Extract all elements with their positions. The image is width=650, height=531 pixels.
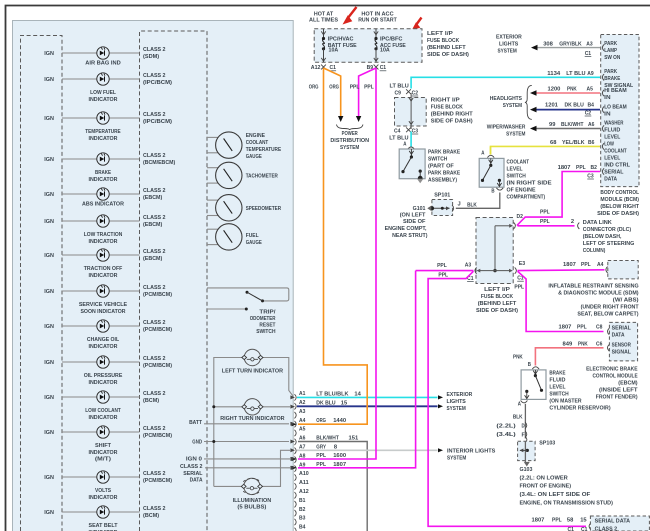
wire DK BLU to exterior lights <box>297 404 443 408</box>
svg-text:C2: C2 <box>412 90 419 96</box>
svg-text:A6: A6 <box>299 436 306 442</box>
svg-text:(2.2L): (2.2L) <box>496 424 515 430</box>
svg-text:99: 99 <box>549 122 556 128</box>
wire IGN feed to AIR-BAG-IND indicator <box>62 52 140 54</box>
svg-text:1201: 1201 <box>545 103 559 109</box>
svg-text:ILLUMINATION: ILLUMINATION <box>233 498 272 504</box>
svg-text:EXTERIOR: EXTERIOR <box>447 392 473 398</box>
indicator lamp SERVICE-VEHICLE <box>44 285 127 315</box>
svg-text:IN: IN <box>604 112 610 118</box>
svg-text:(BCM): (BCM) <box>143 513 159 519</box>
svg-text:PPL: PPL <box>364 85 374 91</box>
power distribution system <box>330 125 369 152</box>
lamp illumination (5 bulbs) <box>233 478 272 510</box>
svg-text:C1: C1 <box>581 527 588 531</box>
svg-text:(PCM/BCM): (PCM/BCM) <box>143 327 172 333</box>
svg-text:IGN: IGN <box>44 116 54 122</box>
svg-text:LT BLU: LT BLU <box>389 135 408 141</box>
svg-text:IGN: IGN <box>44 360 54 366</box>
svg-text:A5: A5 <box>587 86 594 92</box>
svg-text:PNK: PNK <box>567 86 577 92</box>
wire IGN feed to CHANGE-OIL indicator <box>62 325 140 327</box>
wire LT BLU to park brake switch <box>408 132 415 150</box>
svg-text:IGN: IGN <box>44 324 54 330</box>
svg-text:GAUGE: GAUGE <box>246 154 262 160</box>
svg-text:(BELOW DASH,: (BELOW DASH, <box>583 234 622 240</box>
svg-text:A10: A10 <box>299 471 309 477</box>
svg-text:J: J <box>458 202 461 208</box>
svg-text:A: A <box>518 401 522 407</box>
svg-text:A6: A6 <box>588 122 595 128</box>
svg-text:IGN: IGN <box>44 77 54 83</box>
wire label 1807 PPL 58 15 <box>532 518 588 524</box>
wire PPL E3 branch to EBCM serial data <box>518 271 604 331</box>
svg-text:LOW COOLANT: LOW COOLANT <box>85 408 121 414</box>
park brake switch <box>399 149 425 183</box>
svg-text:(BEHIND RIGHT: (BEHIND RIGHT <box>431 112 473 118</box>
svg-text:COOLANT: COOLANT <box>246 140 269 146</box>
svg-text:LIGHTS: LIGHTS <box>447 399 466 405</box>
svg-text:INDICATOR: INDICATOR <box>89 344 119 350</box>
wire BLK/WHT 151 ground from A6 <box>298 442 367 531</box>
svg-text:RUN OR START: RUN OR START <box>358 17 397 23</box>
svg-text:2: 2 <box>571 219 575 225</box>
svg-text:B2: B2 <box>591 165 598 171</box>
svg-text:B4: B4 <box>588 103 595 109</box>
svg-text:C1: C1 <box>568 527 575 531</box>
svg-text:SIDE OF DASH): SIDE OF DASH) <box>597 211 639 217</box>
svg-text:FRONT OF ENGINE): FRONT OF ENGINE) <box>520 484 572 490</box>
svg-text:POWER: POWER <box>342 131 359 137</box>
svg-text:PPL: PPL <box>514 284 524 290</box>
svg-text:ENGINE: ENGINE <box>246 133 265 139</box>
instrument cluster block (light blue) <box>13 21 294 531</box>
node CLASS 2 VOLTS <box>143 471 172 484</box>
node CLASS 2 SHIFT <box>143 426 172 439</box>
svg-text:A: A <box>481 150 485 156</box>
right I/P fuse block <box>395 98 427 127</box>
svg-text:WASHER: WASHER <box>604 121 624 127</box>
wire IGN feed to LOW-TRACTION indicator <box>62 220 140 222</box>
svg-text:CYLINDER RESERVOIR): CYLINDER RESERVOIR) <box>549 405 610 411</box>
engine coolant temperature gauge <box>207 132 281 160</box>
svg-text:LO BEAM: LO BEAM <box>604 105 627 111</box>
svg-text:PPL: PPL <box>540 219 550 225</box>
svg-text:RIGHT I/P: RIGHT I/P <box>431 98 460 104</box>
svg-text:(3.4L: ON LEFT SIDE OF: (3.4L: ON LEFT SIDE OF <box>520 492 591 498</box>
IPC connector pins A1-B4 <box>295 391 310 531</box>
svg-text:CLASS 2: CLASS 2 <box>143 188 166 194</box>
electronic brake control module (EBCM) box <box>608 322 638 361</box>
svg-text:LT BLU: LT BLU <box>566 71 585 77</box>
svg-text:SYSTEM: SYSTEM <box>447 455 466 461</box>
left I/P fuse block (top) <box>314 29 422 63</box>
svg-text:B: B <box>528 362 531 368</box>
svg-text:SERIAL: SERIAL <box>604 170 624 176</box>
svg-text:WIPER/WASHER: WIPER/WASHER <box>487 125 526 131</box>
wire IGN feed to LOW-FUEL indicator <box>62 78 140 80</box>
svg-text:(IPC/BCM): (IPC/BCM) <box>143 119 172 125</box>
svg-text:DATA: DATA <box>612 333 626 339</box>
svg-text:(BCM/EBCM): (BCM/EBCM) <box>143 160 175 166</box>
svg-text:SHIFT: SHIFT <box>95 443 111 449</box>
svg-text:COOLANT: COOLANT <box>604 148 627 154</box>
splice SP101 <box>432 193 454 216</box>
wire IGN feed to SHIFT indicator <box>62 431 140 433</box>
left I/P fuse block (lower) caption <box>476 287 518 314</box>
svg-text:IGN: IGN <box>44 157 54 163</box>
svg-text:SYSTEM: SYSTEM <box>503 103 522 109</box>
svg-text:(5 BULBS): (5 BULBS) <box>237 505 266 511</box>
svg-text:14: 14 <box>354 391 361 397</box>
svg-text:SP103: SP103 <box>539 441 556 447</box>
svg-text:LAMP: LAMP <box>604 48 617 54</box>
node CLASS 2 AIR-BAG-IND <box>143 47 166 60</box>
wire IGN feed to SERVICE-VEHICLE indicator <box>62 290 140 292</box>
svg-text:58: 58 <box>567 518 574 524</box>
svg-text:BLK: BLK <box>513 414 523 420</box>
G103 caption <box>520 467 613 506</box>
coolant level switch <box>479 158 504 194</box>
indicator lamp CHANGE-OIL <box>44 320 119 350</box>
svg-text:LOW: LOW <box>604 141 614 147</box>
svg-text:10A: 10A <box>329 47 339 53</box>
wire label DK BLU 15 (A2) <box>316 400 348 406</box>
connector A3 C1 (left) <box>465 262 477 282</box>
svg-text:PARK BRAKE: PARK BRAKE <box>428 171 460 177</box>
svg-text:C6: C6 <box>596 342 603 348</box>
svg-text:BODY CONTROL: BODY CONTROL <box>600 190 639 196</box>
node CLASS 2 LOW-TRACTION <box>143 215 166 228</box>
svg-text:HEADLIGHTS: HEADLIGHTS <box>490 96 522 102</box>
indicator lamp LOW-FUEL <box>44 73 118 103</box>
svg-text:A: A <box>403 142 407 148</box>
wire PPL to DLC pin 2 <box>518 209 580 229</box>
svg-text:1807: 1807 <box>558 165 572 171</box>
svg-text:CONTROL MODULE: CONTROL MODULE <box>593 374 638 380</box>
svg-text:(BCM): (BCM) <box>143 398 159 404</box>
svg-text:ODOMETER: ODOMETER <box>250 316 276 322</box>
svg-text:(3.4L): (3.4L) <box>496 432 515 438</box>
svg-text:LT BLU/BLK: LT BLU/BLK <box>316 391 349 397</box>
serial data class 2 box <box>590 516 649 531</box>
dashed box: cluster CLASS 2 electronics column <box>140 31 208 531</box>
wire BATT feed <box>189 420 289 426</box>
wire YEL/BLK 68 low coolant <box>491 140 601 154</box>
wire label 1807 PPL C8 <box>559 325 604 331</box>
indicator lamp LOW-TRACTION <box>44 215 122 245</box>
left I/P fuse block (lower) <box>476 218 513 284</box>
svg-text:IND CTRL: IND CTRL <box>604 162 630 168</box>
svg-text:TRACTION OFF: TRACTION OFF <box>84 266 123 272</box>
svg-text:LEFT I/P: LEFT I/P <box>484 287 510 293</box>
svg-text:CLASS 2: CLASS 2 <box>143 506 166 512</box>
svg-text:ENGINE, ON TRANSMISSION STUD): ENGINE, ON TRANSMISSION STUD) <box>520 500 613 506</box>
svg-text:SERIAL: SERIAL <box>183 471 203 477</box>
svg-text:(2.2L: ON LOWER: (2.2L: ON LOWER <box>520 476 569 482</box>
svg-text:BRAKE: BRAKE <box>95 170 111 176</box>
svg-text:LEVEL: LEVEL <box>507 167 523 173</box>
brake fluid level switch <box>521 370 546 400</box>
trip/odometer reset switch <box>207 288 289 335</box>
svg-text:IPC/HVAC: IPC/HVAC <box>328 37 354 43</box>
svg-text:A9: A9 <box>587 71 594 77</box>
indicator lamp AIR-BAG-IND <box>44 47 120 67</box>
svg-text:LEFT TURN INDICATOR: LEFT TURN INDICATOR <box>222 368 284 374</box>
svg-text:A5: A5 <box>299 427 306 433</box>
svg-text:PPL: PPL <box>438 272 448 278</box>
svg-text:CONNECTOR (DLC): CONNECTOR (DLC) <box>583 227 631 233</box>
svg-text:(EBCM): (EBCM) <box>143 222 162 228</box>
exterior lights system (bottom) <box>447 392 473 412</box>
wire internal bus D2 to A3/E3 <box>477 224 514 273</box>
brake fluid level switch caption <box>549 370 610 411</box>
svg-text:ABS INDICATOR: ABS INDICATOR <box>82 202 125 208</box>
node CLASS 2 ABS-INDICATOR <box>143 188 166 201</box>
svg-text:G101: G101 <box>413 206 427 212</box>
svg-text:(M/T): (M/T) <box>95 457 111 463</box>
svg-text:SENSOR: SENSOR <box>612 342 632 348</box>
wire LT BLU/BLK to exterior lights <box>297 395 443 399</box>
svg-text:1807: 1807 <box>559 325 573 331</box>
wire BLK/WHT 99 washer fluid level <box>530 122 600 131</box>
connector A12 C1 <box>311 65 337 72</box>
wire GRY 8 to interior lights <box>297 448 443 452</box>
svg-text:A1: A1 <box>299 391 306 397</box>
lamp left turn indicator <box>222 349 284 374</box>
wire PPL to power distribution <box>356 68 376 122</box>
svg-text:INDICATOR: INDICATOR <box>89 136 119 142</box>
svg-text:LEVEL: LEVEL <box>604 135 620 141</box>
BCM pin function labels <box>604 41 633 183</box>
svg-text:(PCM/BCM): (PCM/BCM) <box>143 433 172 439</box>
svg-text:COLUMN): COLUMN) <box>583 248 606 254</box>
red annotation arrow 1 <box>343 7 357 25</box>
red annotation arrow 2 <box>412 18 422 31</box>
svg-text:SWITCH: SWITCH <box>256 329 275 335</box>
svg-text:ELECTRONIC BRAKE: ELECTRONIC BRAKE <box>586 367 638 373</box>
node CLASS 2 CHANGE-OIL <box>143 320 172 333</box>
svg-text:PNK: PNK <box>578 342 588 348</box>
svg-text:PARK: PARK <box>604 69 617 75</box>
svg-text:(INSIDE LEFT: (INSIDE LEFT <box>599 388 638 394</box>
svg-text:CLASS 2: CLASS 2 <box>143 112 166 118</box>
wire PNK 849 sensor signal <box>535 342 603 366</box>
svg-text:FUSE BLOCK: FUSE BLOCK <box>427 38 460 44</box>
svg-text:INDICATOR: INDICATOR <box>89 97 119 103</box>
svg-text:(BEHIND LEFT: (BEHIND LEFT <box>427 45 466 51</box>
svg-text:DISTRIBUTION: DISTRIBUTION <box>330 138 369 144</box>
svg-text:A3: A3 <box>299 409 306 415</box>
indicator lamp OIL-PRESSURE <box>44 356 122 386</box>
svg-text:IGN: IGN <box>44 219 54 225</box>
svg-text:IN: IN <box>604 95 610 101</box>
connector B9 C1 <box>367 65 387 72</box>
svg-text:(W/ ABS): (W/ ABS) <box>613 298 639 304</box>
svg-text:CLASS 2: CLASS 2 <box>143 426 166 432</box>
svg-text:LEFT I/P: LEFT I/P <box>427 31 453 37</box>
wire labels ORG ORG PPL PPL <box>309 85 374 91</box>
wire PPL 1600 from IPC/BFC ACC fuse to A8 <box>292 68 377 461</box>
svg-text:(EBCM): (EBCM) <box>618 381 637 387</box>
wire left turn indicator loop <box>214 358 293 487</box>
svg-text:(UNDER RIGHT FRONT: (UNDER RIGHT FRONT <box>581 305 639 311</box>
svg-text:INDICATOR: INDICATOR <box>89 177 119 183</box>
svg-text:B3: B3 <box>299 516 306 522</box>
wire ORG 1440 from IPC/HVAC BATT fuse to A4 <box>292 68 368 426</box>
coolant level switch caption <box>507 160 552 201</box>
svg-text:SIDE OF DASH): SIDE OF DASH) <box>476 308 518 314</box>
indicator lamp TEMPERATURE <box>44 112 120 142</box>
svg-text:F: F <box>522 432 526 438</box>
node CLASS 2 SERVICE-VEHICLE <box>143 285 172 298</box>
EBCM caption <box>586 367 638 401</box>
svg-text:(PART OF: (PART OF <box>428 164 454 170</box>
svg-text:B: B <box>491 188 494 194</box>
svg-text:FUSE BLOCK: FUSE BLOCK <box>481 294 514 300</box>
svg-text:C3: C3 <box>412 128 419 134</box>
wire IGN feed to LOW-COOLANT indicator <box>62 396 140 398</box>
svg-text:SEAT, BELOW CARPET): SEAT, BELOW CARPET) <box>577 312 638 318</box>
svg-text:PPL: PPL <box>552 518 562 524</box>
svg-text:B6: B6 <box>588 140 595 146</box>
G101 caption <box>385 213 428 240</box>
connector B at brake fluid switch <box>513 355 539 370</box>
connector C4 C3 <box>389 127 418 147</box>
svg-text:IPC/BFC: IPC/BFC <box>380 36 403 42</box>
lamp right turn indicator <box>220 399 285 422</box>
svg-text:849: 849 <box>563 342 573 348</box>
svg-text:SYSTEM: SYSTEM <box>340 145 359 151</box>
svg-text:SIGNAL: SIGNAL <box>612 349 632 355</box>
svg-text:SPEEDOMETER: SPEEDOMETER <box>246 206 282 212</box>
svg-text:C1: C1 <box>585 51 592 57</box>
svg-text:G103: G103 <box>520 467 534 473</box>
svg-text:AIR BAG IND: AIR BAG IND <box>85 61 120 67</box>
body control module (BCM) box <box>601 35 639 187</box>
svg-text:CLASS 2: CLASS 2 <box>143 215 166 221</box>
svg-text:LOW TRACTION: LOW TRACTION <box>84 232 123 238</box>
node CLASS 2 BRAKE <box>143 153 175 166</box>
svg-text:PPL: PPL <box>540 209 550 215</box>
hot feed labels <box>309 11 397 23</box>
wire label LT BLU/BLK 14 (A1) <box>316 391 361 397</box>
svg-text:INDICATOR: INDICATOR <box>89 495 119 501</box>
svg-text:BATT: BATT <box>189 420 202 426</box>
svg-text:C8: C8 <box>596 325 603 331</box>
svg-text:(PCM/BCM): (PCM/BCM) <box>143 478 172 484</box>
svg-text:FLUID: FLUID <box>604 128 620 134</box>
svg-text:IGN: IGN <box>44 51 54 57</box>
svg-text:(EBCM): (EBCM) <box>143 195 162 201</box>
svg-text:C4: C4 <box>394 128 401 134</box>
svg-text:FRONT FENDER): FRONT FENDER) <box>596 395 638 401</box>
connector C1 C1 (bottom) <box>568 523 591 531</box>
svg-text:C2: C2 <box>585 110 592 116</box>
headlights system + brace <box>490 85 532 119</box>
indicator lamp BRAKE <box>44 153 118 183</box>
fuel gauge <box>207 224 262 250</box>
svg-text:SIDE OF DASH): SIDE OF DASH) <box>427 52 469 58</box>
svg-text:(IPC/BCM): (IPC/BCM) <box>143 80 172 86</box>
svg-text:GAUGE: GAUGE <box>246 240 262 246</box>
connector E3 C1 (right) <box>514 261 525 290</box>
svg-text:INDICATOR: INDICATOR <box>89 239 119 245</box>
svg-text:PNK: PNK <box>513 355 523 361</box>
wire CLASS 2 serial data feed <box>180 464 290 484</box>
svg-text:BLK: BLK <box>467 202 477 208</box>
svg-text:SYSTEM: SYSTEM <box>506 132 525 138</box>
svg-text:& DIAGNOSTIC MODULE (SDM): & DIAGNOSTIC MODULE (SDM) <box>558 291 639 297</box>
svg-text:TRIP/: TRIP/ <box>259 310 275 316</box>
svg-text:CLASS 2: CLASS 2 <box>143 391 166 397</box>
svg-text:BLK/WHT: BLK/WHT <box>316 436 339 442</box>
inflatable restraint SDM box <box>606 261 638 279</box>
svg-text:B1: B1 <box>299 498 306 504</box>
wire illumination to dimmer (A7) <box>214 450 290 486</box>
svg-text:CLASS 2: CLASS 2 <box>143 153 166 159</box>
svg-text:C1: C1 <box>330 65 337 71</box>
svg-text:INDICATOR: INDICATOR <box>89 380 119 386</box>
left I/P fuse block caption <box>427 31 469 58</box>
svg-text:IGN: IGN <box>44 289 54 295</box>
svg-text:1200: 1200 <box>548 86 562 92</box>
indicator lamp VOLTS <box>44 471 118 501</box>
svg-text:RESET: RESET <box>259 323 275 329</box>
svg-text:(IN RIGHT SIDE: (IN RIGHT SIDE <box>507 181 552 187</box>
indicator lamp TRACTION-OFF <box>44 249 122 279</box>
connector C9 C2 <box>390 83 419 96</box>
wiper/washer system <box>487 125 526 138</box>
svg-text:PPL: PPL <box>581 262 591 268</box>
fuse IPC/HVAC BATT FUSE 10A <box>321 29 356 63</box>
svg-text:C1: C1 <box>380 65 387 71</box>
wire label PPL 1600 (A8) <box>316 453 347 459</box>
svg-text:GND: GND <box>192 440 202 446</box>
svg-text:OIL PRESSURE: OIL PRESSURE <box>84 373 123 379</box>
node CLASS 2 LOW-COOLANT <box>143 391 166 404</box>
svg-text:CLASS 2: CLASS 2 <box>595 526 618 531</box>
svg-text:A3: A3 <box>586 41 593 47</box>
svg-text:68: 68 <box>550 140 557 146</box>
svg-text:D: D <box>522 424 525 430</box>
connector D2 <box>514 214 524 229</box>
svg-text:LOW FUEL: LOW FUEL <box>90 90 116 96</box>
svg-text:(BEHIND LEFT: (BEHIND LEFT <box>478 301 517 307</box>
wire DK BLU 1201 lo beam <box>530 103 600 117</box>
svg-text:ORG: ORG <box>316 418 326 424</box>
svg-text:PPL: PPL <box>576 165 586 171</box>
svg-text:SW ON: SW ON <box>604 55 620 61</box>
svg-text:IGN: IGN <box>44 430 54 436</box>
wire IGN feed to OIL-PRESSURE indicator <box>62 361 140 363</box>
junction arrows into pins A1 A2 A4 A6 A7 A8 A9 <box>290 395 295 469</box>
svg-text:CLASS 2: CLASS 2 <box>180 464 203 470</box>
svg-text:BRAKE: BRAKE <box>549 370 565 376</box>
wire GRY/BLK 308 park lamp sw on <box>531 41 600 57</box>
svg-text:PPL: PPL <box>577 325 587 331</box>
svg-text:SWITCH: SWITCH <box>428 157 447 163</box>
svg-text:IGN: IGN <box>44 475 54 481</box>
svg-text:CLASS 2: CLASS 2 <box>143 471 166 477</box>
svg-text:A11: A11 <box>299 480 309 486</box>
svg-text:SWITCH: SWITCH <box>507 174 526 180</box>
svg-text:DATA LINK: DATA LINK <box>583 220 613 226</box>
wire IGN feed to ABS-INDICATOR indicator <box>62 193 140 195</box>
svg-text:DK BLU: DK BLU <box>565 103 584 109</box>
wire YEL/BLK into coolant level switch <box>481 146 494 157</box>
svg-text:(BELOW RIGHT: (BELOW RIGHT <box>600 204 639 210</box>
